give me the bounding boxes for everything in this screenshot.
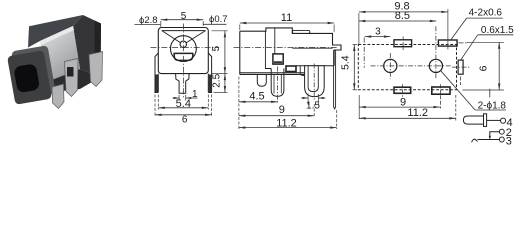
- photo rear block: [73, 15, 101, 77]
- front small circle: [180, 41, 186, 47]
- svg-text:6: 6: [478, 65, 490, 71]
- side dimension 11: [240, 22, 334, 32]
- svg-text:9: 9: [279, 104, 285, 116]
- photo barrel hole: [13, 63, 40, 93]
- svg-text:5.4: 5.4: [176, 98, 191, 110]
- front cone diagonal right: [186, 31, 205, 43]
- side rear leg outer: [305, 66, 325, 97]
- svg-text:4-2x0.6: 4-2x0.6: [469, 7, 503, 18]
- layout dimension 11.2: [359, 95, 456, 121]
- photo pin 2: [89, 52, 103, 87]
- side rear leg inner: [308, 66, 318, 91]
- layout hole 2: [429, 59, 442, 72]
- front dimension 1: [173, 95, 198, 101]
- side barrel-mid boundary: [265, 31, 271, 68]
- layout dimension 8.5: [359, 20, 436, 22]
- schematic terminal 3: [499, 137, 504, 142]
- layout dimension 9: [359, 95, 440, 119]
- schematic terminal 2: [499, 129, 504, 134]
- front dimension 5 right: [212, 31, 228, 74]
- side mid block inner square: [273, 54, 283, 64]
- layout pad right small: [458, 60, 463, 74]
- svg-text:2.5: 2.5: [212, 73, 223, 87]
- svg-text:11.2: 11.2: [276, 118, 297, 130]
- side dimension 4.5: [239, 67, 278, 130]
- svg-text:3: 3: [375, 27, 381, 38]
- photo lower dark band: [49, 69, 101, 92]
- side dimension 1.5: [301, 94, 326, 105]
- front centerline vertical: [183, 24, 185, 99]
- layout extra vertical dashdot: [363, 38, 365, 68]
- side dimension 9: [239, 104, 314, 117]
- side front leg: [257, 75, 266, 87]
- photo pin 1: [65, 59, 79, 97]
- schematic plug symbol: [463, 114, 505, 127]
- layout extra tick: [489, 89, 491, 98]
- svg-text:1.5: 1.5: [306, 101, 320, 112]
- SIDE VIEW: [240, 28, 341, 109]
- side top strip: [292, 30, 310, 33]
- front dimension 2.5 right: [214, 74, 228, 93]
- svg-text:9: 9: [400, 96, 406, 108]
- photo dark top strip: [28, 15, 83, 48]
- front dimension 5 top: [161, 19, 203, 28]
- front body: [158, 28, 208, 74]
- layout body dashed outline: [358, 45, 456, 90]
- svg-text:6: 6: [182, 115, 188, 126]
- front centerline horizontal: [151, 47, 220, 49]
- front right tab: [208, 53, 211, 93]
- svg-text:11.2: 11.2: [407, 107, 428, 119]
- FRONT VIEW: [155, 28, 212, 94]
- schematic pin 3 lever: [472, 137, 505, 142]
- side shield seam: [292, 47, 332, 49]
- layout pad bottom-right: [432, 87, 450, 94]
- front large circle: [171, 36, 197, 62]
- layout dimension 3: [365, 35, 391, 37]
- layout dimension 9.8: [359, 9, 448, 49]
- svg-text:5: 5: [211, 45, 222, 51]
- side dimension 11.2: [239, 110, 337, 129]
- layout dimension 6 right: [462, 42, 504, 90]
- svg-text:3: 3: [506, 136, 512, 148]
- side bracket detail: [286, 66, 296, 72]
- side centerline: [234, 46, 338, 48]
- schematic pin 2 branch: [489, 129, 505, 139]
- front center pin: [176, 74, 190, 94]
- front cone diagonal left: [162, 31, 180, 43]
- layout pad top-left: [394, 40, 412, 47]
- photo front block face: [7, 50, 52, 105]
- svg-text:8.5: 8.5: [395, 10, 410, 22]
- photo shield top face: [40, 26, 80, 81]
- front tongue: [174, 53, 193, 60]
- layout dimension 5.4 left: [353, 45, 358, 90]
- layout pad top-right: [438, 40, 457, 46]
- svg-text:5: 5: [181, 11, 187, 22]
- svg-text:11: 11: [281, 12, 292, 24]
- layout hole 1: [384, 59, 397, 72]
- side rear step ear: [300, 66, 304, 76]
- side body outline: [240, 28, 341, 73]
- front inner top line: [162, 30, 206, 32]
- svg-text:5.4: 5.4: [340, 55, 352, 70]
- front left tab: [155, 53, 158, 93]
- svg-text:1: 1: [192, 89, 198, 100]
- layout pad bottom-left: [394, 87, 411, 93]
- svg-text:ϕ0.7: ϕ0.7: [209, 14, 228, 25]
- side rear bottom edge: [296, 65, 334, 67]
- photo near tab: [52, 84, 64, 109]
- side center pin: [271, 69, 284, 97]
- side mid internal line: [274, 28, 276, 54]
- front dimension 5.4: [158, 95, 208, 110]
- side bottom double line: [240, 74, 306, 76]
- side rear leg centerline: [313, 64, 315, 102]
- front dimension 6: [155, 95, 212, 117]
- svg-text:4.5: 4.5: [249, 90, 264, 102]
- schematic terminal 4: [501, 118, 506, 123]
- photo front block top sliver: [11, 45, 56, 100]
- side shield pin: [334, 50, 336, 109]
